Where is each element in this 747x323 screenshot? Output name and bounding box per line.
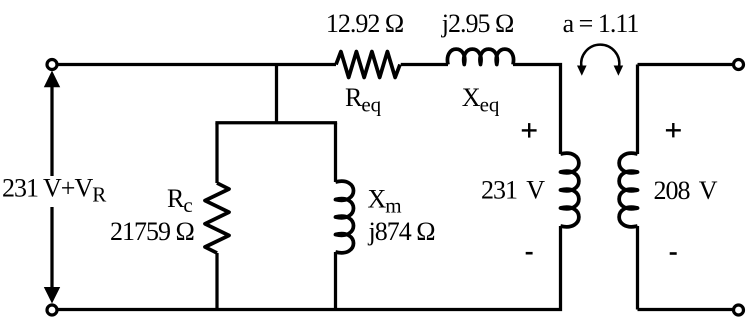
wire X_m top lead <box>334 123 337 182</box>
wire top-left horizontal <box>57 63 336 66</box>
terminal top-left <box>47 60 57 70</box>
label minus primary <box>526 252 533 255</box>
wire R_c bottom lead <box>215 253 218 310</box>
resistor R_eq <box>336 52 400 78</box>
terminal top-right <box>734 60 744 70</box>
coupling arrow head right <box>614 66 624 76</box>
resistor R_c <box>205 183 229 253</box>
svg-text:j2.95 Ω: j2.95 Ω <box>441 9 514 38</box>
label plus primary <box>522 123 537 138</box>
voltage arrow head down <box>44 287 60 304</box>
svg-text:231 V+VR: 231 V+VR <box>2 174 106 207</box>
label minus secondary <box>670 252 677 255</box>
inductor X_m <box>336 181 354 253</box>
wire from X_eq to primary top corner <box>513 65 561 155</box>
wire X_m bottom lead <box>334 252 337 310</box>
svg-text:12.92 Ω: 12.92 Ω <box>326 9 403 38</box>
voltage arrow shaft <box>50 84 53 290</box>
wire R_c top lead <box>215 123 218 183</box>
wire shunt top bar <box>215 121 337 124</box>
terminal bottom-left <box>47 305 57 315</box>
wire secondary bottom lead <box>636 226 639 310</box>
wire secondary top lead <box>636 65 639 155</box>
wire shunt feed from top bus <box>275 65 278 123</box>
label plus secondary <box>666 123 681 137</box>
svg-text:a = 1.11: a = 1.11 <box>563 9 639 38</box>
svg-text:21759 Ω: 21759 Ω <box>110 217 194 246</box>
coupling arrow head left <box>577 66 587 76</box>
coupling arc a=1.11 <box>581 45 619 67</box>
terminal bottom-right <box>734 305 744 315</box>
transformer primary winding <box>561 153 579 227</box>
label 231 V+V_R background <box>0 176 111 207</box>
voltage arrow head up <box>44 71 60 88</box>
svg-text:j874 Ω: j874 Ω <box>368 217 435 246</box>
inductor X_eq <box>447 49 513 64</box>
svg-text:208 V: 208 V <box>654 176 718 205</box>
svg-text:231 V: 231 V <box>481 175 545 204</box>
wire secondary top horizontal <box>638 63 734 66</box>
transformer secondary winding <box>619 153 637 227</box>
wire secondary bottom horizontal <box>638 308 734 311</box>
wire between R_eq and X_eq <box>401 63 448 66</box>
wire primary bottom lead and bottom bus <box>57 226 561 310</box>
